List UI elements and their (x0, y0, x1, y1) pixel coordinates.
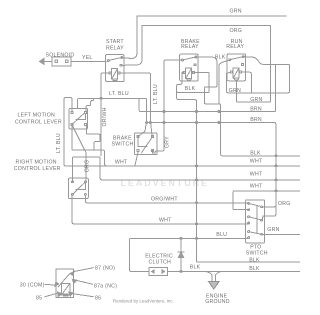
wire right lever TL up to WHT2 feed (72, 157, 300, 182)
wire PTO ORG out (263, 205, 276, 207)
svg-text:PTO: PTO (250, 244, 261, 250)
wire GRN top (137, 15, 286, 17)
wire OR/WH drop lower to WHT2 (100, 134, 102, 155)
svg-text:30 (COM): 30 (COM) (20, 282, 45, 288)
svg-text:LT. BLU: LT. BLU (153, 84, 159, 104)
svg-text:WHT: WHT (159, 217, 172, 223)
svg-text:WHT: WHT (250, 184, 263, 190)
wire LT BLU horizontal (78, 98, 147, 136)
wire run relay switch left BLK curve (219, 60, 229, 104)
svg-text:ORG/WHT: ORG/WHT (151, 197, 178, 203)
run relay U3 (227, 54, 246, 81)
brake relay U2 (180, 54, 199, 81)
svg-text:RELAY: RELAY (226, 44, 244, 50)
svg-text:GRN: GRN (267, 227, 279, 233)
svg-text:BLK: BLK (215, 54, 226, 60)
svg-text:YEL: YEL (82, 55, 93, 61)
wire GRN top left drop to start relay (122, 16, 137, 59)
svg-text:SWITCH: SWITCH (112, 142, 134, 148)
svg-text:GROUND: GROUND (205, 299, 230, 305)
relay detail legend (45, 268, 93, 298)
svg-text:GRN: GRN (250, 97, 262, 103)
svg-text:RIGHT MOTION: RIGHT MOTION (16, 160, 57, 166)
wire WHT3 loop to PTO terminal2 (233, 191, 300, 210)
svg-text:ORG: ORG (278, 201, 291, 207)
node junction dots mid (196, 165, 198, 167)
wire ORG top (142, 26, 271, 103)
wire brake switch BL diagonal to WHT1 (135, 152, 138, 166)
wire left lever BL diagonal to ORG drop (72, 126, 86, 182)
svg-text:ELECTRIC: ELECTRIC (145, 253, 173, 259)
svg-text:RELAY: RELAY (181, 44, 199, 50)
svg-text:86: 86 (95, 296, 101, 302)
svg-text:BLK: BLK (249, 266, 260, 272)
start relay U1 (106, 55, 125, 82)
svg-text:GRN: GRN (229, 88, 241, 94)
wire start relay coil left to OR/WH drop (101, 73, 109, 134)
svg-text:WHT: WHT (115, 159, 128, 165)
diode D1 (168, 270, 301, 272)
left motion control lever SW1 (69, 108, 87, 129)
svg-text:GRY: GRY (164, 136, 170, 148)
svg-text:BLU: BLU (216, 232, 227, 238)
wire WHT1 line (105, 165, 300, 167)
svg-text:START: START (106, 39, 124, 45)
wire BRN1 riser (139, 64, 275, 111)
wire brake relay coil right loop (177, 73, 210, 93)
wire right lever BR to ORG/WHT line (85, 195, 248, 202)
svg-text:WHT: WHT (250, 159, 263, 165)
svg-text:LEFT MOTION: LEFT MOTION (18, 113, 56, 119)
wire left lever TR steps (86, 98, 94, 111)
svg-text:Rendered by LeadVenture, Inc.: Rendered by LeadVenture, Inc. (113, 299, 174, 304)
svg-text:SOLENOID: SOLENOID (46, 53, 75, 59)
right motion control lever SW2 (68, 178, 88, 198)
wire ORG left drop to start relay (123, 26, 142, 66)
engine ground (205, 271, 212, 281)
wire run relay coil bottom to GRN2 (236, 80, 269, 102)
svg-text:SWITCH: SWITCH (246, 251, 268, 257)
brake switch S3 (135, 133, 157, 155)
svg-text:LT. BLU: LT. BLU (56, 133, 62, 153)
wire YEL solenoid to start relay (71, 60, 106, 62)
svg-text:GRN: GRN (230, 9, 242, 15)
wire run relay coil right short drop (242, 72, 251, 93)
svg-text:CONTROL LEVER: CONTROL LEVER (15, 120, 62, 126)
node junction dots upper (100, 97, 102, 99)
wire left lever BL down (72, 126, 106, 166)
svg-text:BRN: BRN (250, 107, 262, 113)
svg-text:BLK: BLK (190, 265, 201, 271)
svg-text:BLK: BLK (185, 86, 196, 92)
svg-text:85: 85 (36, 296, 42, 302)
svg-text:87 (NO): 87 (NO) (95, 266, 115, 272)
wire brake relay switch dot to run relay area (197, 57, 300, 156)
wire brake relay switch left to GRY vertical (152, 60, 182, 153)
svg-text:CONTROL LEVER: CONTROL LEVER (14, 166, 61, 172)
electric clutch (149, 267, 168, 275)
wire BRN2 to PTO (148, 123, 276, 221)
svg-text:ORG: ORG (230, 28, 243, 34)
wire BLU line (130, 238, 249, 269)
svg-text:LT. BLU: LT. BLU (109, 91, 129, 97)
wire clutch left to BLU riser (130, 269, 149, 271)
svg-text:87a (NC): 87a (NC) (94, 283, 117, 289)
wire left lever TL loop (64, 98, 105, 166)
wire left lever BR serpentine (86, 126, 100, 151)
wire brake relay coil left to BLK vertical (177, 73, 300, 263)
svg-text:CLUTCH: CLUTCH (149, 259, 172, 265)
svg-text:OR/WH: OR/WH (102, 107, 108, 126)
svg-text:BLK: BLK (249, 258, 260, 264)
svg-text:BLK: BLK (250, 151, 261, 157)
solenoid (40, 57, 72, 66)
svg-text:BRN: BRN (250, 117, 262, 123)
svg-text:WHT: WHT (250, 171, 263, 177)
wire right lever BL to WHT bottom line (72, 195, 248, 224)
wire PTO GRN out (263, 233, 300, 235)
svg-text:ORG: ORG (84, 160, 90, 173)
wire LT BLU from start relay coil right down (120, 73, 152, 137)
svg-text:RELAY: RELAY (106, 45, 124, 51)
PTO switch S4 (246, 200, 265, 243)
wire run relay switch dot right to GRN loop (226, 57, 289, 93)
